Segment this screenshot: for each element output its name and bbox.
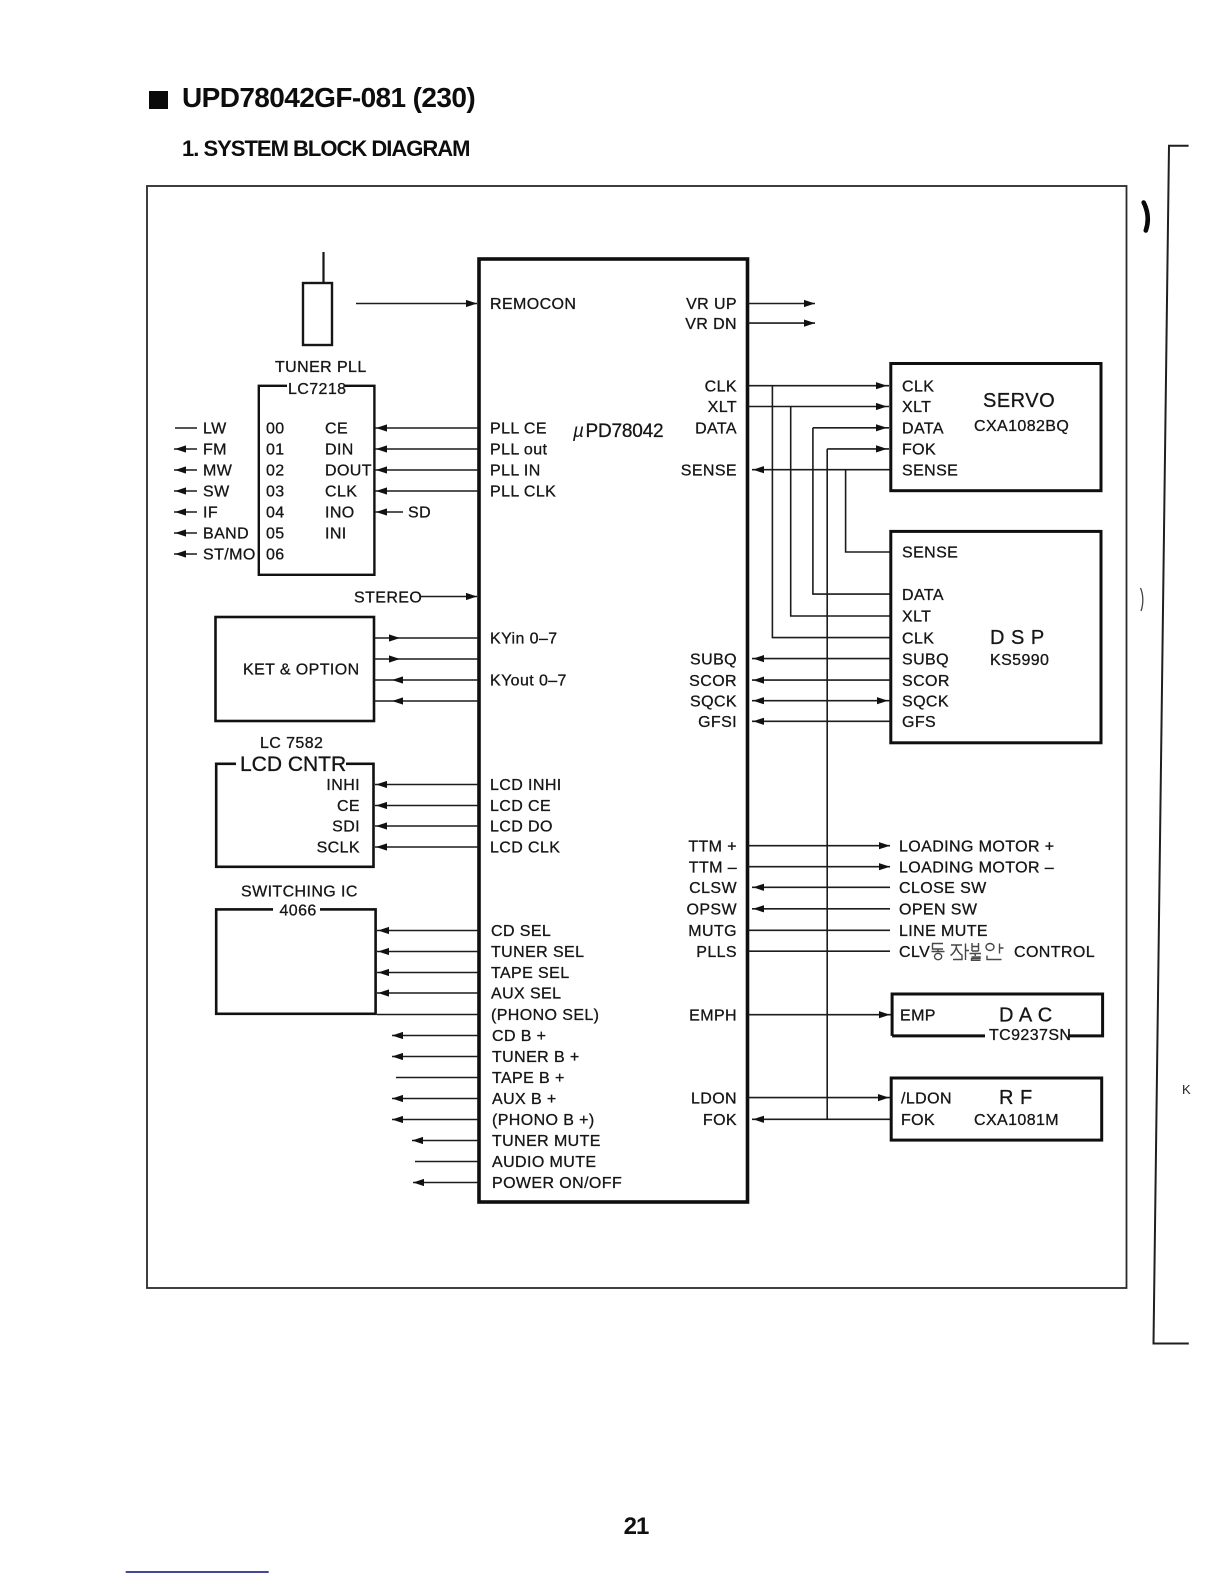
- svg-text:OPEN SW: OPEN SW: [899, 902, 978, 919]
- svg-text:MW: MW: [203, 463, 233, 480]
- svg-text:VR UP: VR UP: [686, 296, 737, 313]
- wire VR UP output: [748, 300, 815, 307]
- svg-text:LDON: LDON: [691, 1090, 737, 1107]
- svg-text:SENSE: SENSE: [902, 545, 958, 562]
- wire CLK vertical to DSP: [772, 386, 890, 638]
- svg-text:SENSE: SENSE: [681, 462, 737, 479]
- svg-text:DATA: DATA: [902, 421, 944, 438]
- wire TAPE B + output: [396, 1077, 478, 1079]
- svg-text:MUTG: MUTG: [688, 923, 737, 940]
- svg-text:PLL IN: PLL IN: [490, 463, 541, 480]
- svg-text:XLT: XLT: [902, 609, 931, 626]
- wire FOK to servo: [827, 445, 889, 452]
- svg-text:SENSE: SENSE: [902, 462, 958, 479]
- svg-text:AUX B +: AUX B +: [492, 1091, 557, 1108]
- svg-text:KET & OPTION: KET & OPTION: [243, 662, 360, 679]
- svg-text:VR DN: VR DN: [685, 316, 737, 333]
- wire POWER ON/OFF output: [413, 1179, 478, 1186]
- wire TUNER SEL to 4066: [377, 948, 478, 955]
- svg-text:BAND: BAND: [203, 526, 249, 543]
- svg-text:LOADING MOTOR –: LOADING MOTOR –: [899, 859, 1054, 876]
- wire STEREO to U1: [421, 593, 477, 600]
- svg-text:KYin 0–7: KYin 0–7: [490, 631, 558, 648]
- svg-text:4066: 4066: [280, 903, 317, 920]
- label korean hangul (approximated): [932, 943, 1004, 960]
- wire PLLS line: [748, 950, 890, 952]
- svg-text:FM: FM: [203, 442, 227, 459]
- svg-text:SCOR: SCOR: [689, 673, 737, 690]
- wire (PHONO SEL) line: [377, 1014, 478, 1016]
- svg-text:XLT: XLT: [902, 399, 931, 416]
- wire TTM – output: [748, 863, 890, 870]
- svg-text:K: K: [1182, 1082, 1191, 1097]
- svg-text:TUNER PLL: TUNER PLL: [275, 359, 367, 376]
- svg-text:CD SEL: CD SEL: [491, 923, 551, 940]
- wire LW output: [175, 427, 197, 429]
- key & option block: [216, 617, 375, 721]
- wire FOK vertical bus: [826, 449, 828, 1119]
- wire FM output: [174, 445, 197, 452]
- wire BAND output: [174, 529, 197, 536]
- svg-text:UPD78042GF-081 (230): UPD78042GF-081 (230): [182, 82, 475, 113]
- svg-text:ST/MO: ST/MO: [203, 547, 256, 564]
- diagram outer frame: [147, 186, 1127, 1288]
- svg-text:CXA1081M: CXA1081M: [974, 1112, 1059, 1129]
- wire IF output: [174, 508, 197, 515]
- wire SENSE vertical to DSP: [846, 470, 890, 552]
- wire SCOR wire: [752, 677, 891, 684]
- wire SW output: [174, 487, 197, 494]
- svg-text:04: 04: [266, 505, 285, 522]
- svg-text:TUNER SEL: TUNER SEL: [491, 944, 584, 961]
- wire AUDIO MUTE output: [415, 1161, 478, 1163]
- wire SD to INO: [375, 508, 403, 515]
- wire KYin wire 2: [374, 655, 478, 662]
- wire remocon to U1: [356, 300, 477, 307]
- wire PLL IN to DOUT: [375, 466, 478, 473]
- svg-text:TAPE SEL: TAPE SEL: [491, 965, 570, 982]
- wire FOK from RF: [752, 1116, 891, 1123]
- wire SQCK bidirectional: [752, 697, 890, 704]
- svg-text:POWER ON/OFF: POWER ON/OFF: [492, 1175, 622, 1192]
- wire LDON to RF: [748, 1094, 890, 1101]
- svg-text:D S P: D S P: [990, 627, 1045, 649]
- svg-text:XLT: XLT: [708, 399, 737, 416]
- svg-text:CONTROL: CONTROL: [1014, 944, 1095, 961]
- wire CD SEL to 4066: [377, 927, 478, 934]
- svg-text:CXA1082BQ: CXA1082BQ: [974, 418, 1069, 435]
- svg-text:TAPE B +: TAPE B +: [492, 1070, 565, 1087]
- DAC IC TC9237SN box: [892, 994, 1103, 1036]
- svg-text:SERVO: SERVO: [983, 390, 1055, 412]
- scan artifact: next page edge: [1154, 146, 1189, 1344]
- svg-text:CLV: CLV: [899, 944, 930, 961]
- wire CD B + output: [392, 1032, 478, 1039]
- svg-text:/LDON: /LDON: [901, 1090, 952, 1107]
- svg-text:LCD DO: LCD DO: [490, 819, 553, 836]
- svg-text:EMPH: EMPH: [689, 1007, 737, 1024]
- scan artifact: thin paren: [1141, 588, 1143, 611]
- DSP IC KS5990 box: [891, 531, 1101, 742]
- wire MUTG line: [748, 929, 890, 931]
- svg-text:CLK: CLK: [902, 378, 934, 395]
- wire SUBQ wire: [752, 655, 891, 662]
- svg-text:DATA: DATA: [695, 421, 737, 438]
- wire KYout wire 2: [374, 697, 478, 704]
- wire MW output: [174, 466, 197, 473]
- svg-text:(PHONO SEL): (PHONO SEL): [491, 1007, 599, 1024]
- svg-text:AUDIO MUTE: AUDIO MUTE: [492, 1154, 596, 1171]
- svg-text:STEREO: STEREO: [354, 589, 422, 606]
- svg-text:LCD CNTR: LCD CNTR: [240, 753, 346, 776]
- wire GFS wire: [752, 718, 891, 725]
- wire AUX B + output: [392, 1095, 478, 1102]
- svg-text:IF: IF: [203, 505, 218, 522]
- wire TUNER B + output: [392, 1053, 478, 1060]
- svg-text:LCD CLK: LCD CLK: [490, 840, 560, 857]
- svg-text:LC 7582: LC 7582: [260, 735, 323, 752]
- svg-text:EMP: EMP: [900, 1007, 936, 1024]
- wire XLT vertical to DSP: [791, 407, 890, 617]
- svg-text:TTM –: TTM –: [689, 859, 737, 876]
- wire TAPE SEL to 4066: [377, 969, 478, 976]
- svg-text:SD: SD: [408, 505, 431, 522]
- svg-text:KYout 0–7: KYout 0–7: [490, 672, 567, 689]
- wire CLK to servo: [748, 382, 889, 389]
- svg-text:SQCK: SQCK: [902, 693, 949, 710]
- wire LCD DO to SDI: [375, 822, 478, 829]
- svg-text:LOADING MOTOR +: LOADING MOTOR +: [899, 838, 1055, 855]
- svg-text:DOUT: DOUT: [325, 463, 372, 480]
- svg-text:02: 02: [266, 463, 285, 480]
- svg-text:CLK: CLK: [325, 484, 357, 501]
- svg-text:R F: R F: [999, 1087, 1033, 1109]
- svg-text:µ: µ: [572, 421, 584, 442]
- svg-text:PD78042: PD78042: [586, 421, 664, 442]
- svg-text:PLL CE: PLL CE: [490, 421, 547, 438]
- svg-text:SUBQ: SUBQ: [902, 651, 949, 668]
- svg-text:FOK: FOK: [901, 1112, 935, 1129]
- scan artifact: dark crescent: [1144, 203, 1148, 231]
- svg-text:LINE MUTE: LINE MUTE: [899, 923, 988, 940]
- wire LCD CLK to SCLK: [375, 843, 478, 850]
- svg-text:DIN: DIN: [325, 442, 354, 459]
- svg-text:03: 03: [266, 484, 285, 501]
- svg-text:01: 01: [266, 442, 285, 459]
- svg-text:LCD CE: LCD CE: [490, 798, 551, 815]
- wire ST/MO output: [174, 550, 197, 557]
- wire PLL CLK to CLK: [375, 487, 478, 494]
- svg-text:CE: CE: [325, 421, 348, 438]
- tuner PLL IC LC7218 box: [259, 383, 375, 575]
- svg-text:SW: SW: [203, 484, 230, 501]
- svg-text:CD B +: CD B +: [492, 1028, 546, 1045]
- svg-text:CLK: CLK: [705, 378, 737, 395]
- switching IC 4066 box: [216, 906, 375, 1014]
- svg-text:AUX SEL: AUX SEL: [491, 986, 561, 1003]
- svg-text:TUNER B +: TUNER B +: [492, 1049, 580, 1066]
- svg-text:TUNER MUTE: TUNER MUTE: [492, 1133, 601, 1150]
- svg-text:21: 21: [624, 1513, 649, 1540]
- svg-text:LW: LW: [203, 421, 227, 438]
- svg-text:SCOR: SCOR: [902, 673, 950, 690]
- wire KYout wire 1: [374, 676, 478, 683]
- svg-text:CE: CE: [337, 798, 360, 815]
- wire PLL CE to CE: [375, 424, 478, 431]
- wire KYin wire 1: [374, 634, 478, 641]
- header bullet square: [149, 91, 168, 109]
- wire TUNER MUTE output: [412, 1137, 478, 1144]
- wire VR DN output: [748, 320, 815, 327]
- svg-text:FOK: FOK: [703, 1112, 737, 1129]
- svg-text:GFSI: GFSI: [698, 714, 737, 731]
- wire (PHONO B +) output: [392, 1116, 478, 1123]
- svg-text:CLOSE SW: CLOSE SW: [899, 880, 987, 897]
- wire OPSW input: [752, 905, 890, 912]
- wire CLSW input: [752, 884, 890, 891]
- svg-text:INO: INO: [325, 505, 355, 522]
- svg-text:PLL out: PLL out: [490, 442, 548, 459]
- svg-text:SCLK: SCLK: [317, 840, 360, 857]
- svg-text:SDI: SDI: [332, 819, 360, 836]
- wire LCD CE to CE: [375, 802, 478, 809]
- wire PLL out to DIN: [375, 445, 478, 452]
- svg-text:LC7218: LC7218: [288, 381, 346, 398]
- svg-text:(PHONO B +): (PHONO B +): [492, 1112, 595, 1129]
- svg-text:DATA: DATA: [902, 587, 944, 604]
- wire EMPH to DAC: [748, 1011, 891, 1018]
- svg-text:00: 00: [266, 421, 285, 438]
- wire XLT to servo: [748, 403, 889, 410]
- svg-text:06: 06: [266, 547, 285, 564]
- wire AUX SEL to 4066: [377, 989, 478, 996]
- svg-text:CLK: CLK: [902, 630, 934, 647]
- svg-text:LCD INHI: LCD INHI: [490, 777, 562, 794]
- svg-text:TC9237SN: TC9237SN: [989, 1027, 1071, 1044]
- svg-text:1. SYSTEM BLOCK DIAGRAM: 1. SYSTEM BLOCK DIAGRAM: [182, 136, 469, 161]
- svg-text:SWITCHING IC: SWITCHING IC: [241, 884, 358, 901]
- svg-text:INI: INI: [325, 526, 347, 543]
- remocon IR sensor: [303, 252, 332, 345]
- RF amp IC CXA1081M box: [891, 1078, 1101, 1140]
- svg-text:OPSW: OPSW: [687, 902, 738, 919]
- wire SENSE from servo: [752, 466, 891, 473]
- svg-text:GFS: GFS: [902, 714, 936, 731]
- wire DATA to servo: [813, 424, 889, 431]
- svg-text:TTM +: TTM +: [688, 838, 737, 855]
- microcontroller U1 uPD78042 block: [479, 259, 748, 1202]
- svg-text:D A C: D A C: [999, 1005, 1053, 1027]
- servo IC CXA1082BQ box: [891, 364, 1101, 491]
- svg-text:INHI: INHI: [326, 777, 360, 794]
- wire LCD INHI to INHI: [375, 781, 478, 788]
- svg-text:CLSW: CLSW: [689, 880, 737, 897]
- svg-text:KS5990: KS5990: [990, 652, 1049, 669]
- svg-text:05: 05: [266, 526, 285, 543]
- wire DATA vertical to DSP: [813, 428, 890, 594]
- LCD controller LC7582 box: [216, 761, 373, 867]
- wire TTM + output: [748, 842, 890, 849]
- svg-text:PLLS: PLLS: [696, 944, 737, 961]
- svg-text:PLL CLK: PLL CLK: [490, 484, 556, 501]
- svg-text:SQCK: SQCK: [690, 693, 737, 710]
- footer blue rule: [126, 1571, 269, 1573]
- svg-text:REMOCON: REMOCON: [490, 296, 576, 313]
- svg-text:FOK: FOK: [902, 442, 936, 459]
- svg-text:SUBQ: SUBQ: [690, 651, 737, 668]
